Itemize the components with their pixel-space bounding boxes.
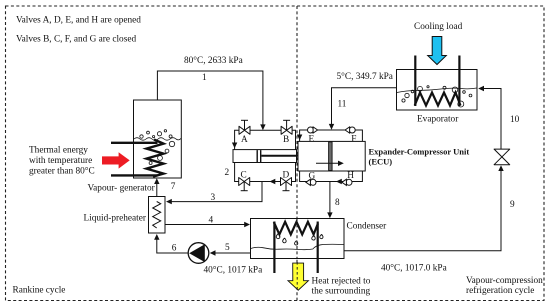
condenser coil bbox=[274, 222, 318, 235]
svg-text:Expander-Compressor Unit: Expander-Compressor Unit bbox=[369, 146, 470, 156]
arrowhead up into expansion valve (line 9) bbox=[498, 165, 503, 171]
svg-text:Rankine cycle: Rankine cycle bbox=[13, 286, 66, 296]
piston motion arrow bbox=[316, 162, 341, 164]
piston rod bbox=[261, 155, 328, 157]
condenser droplets bbox=[276, 234, 323, 246]
svg-text:7: 7 bbox=[171, 182, 176, 192]
left piston (double line) bbox=[256, 150, 258, 162]
arrowhead left on right bottom manifold bbox=[336, 179, 342, 184]
wire line 10 (expansion valve to evaporator) bbox=[482, 89, 501, 150]
svg-text:5°C, 349.7 kPa: 5°C, 349.7 kPa bbox=[337, 71, 393, 82]
svg-text:G: G bbox=[309, 171, 316, 181]
svg-text:40°C, 1017.0 kPa: 40°C, 1017.0 kPa bbox=[381, 263, 447, 274]
ECU left bottom manifold bbox=[235, 163, 296, 182]
red thermal-input arrow bbox=[102, 152, 130, 168]
wire line 8 (ECU to condenser) bbox=[329, 182, 331, 215]
wire line 11 (evaporator to ECU) bbox=[332, 88, 398, 126]
arrowhead down inside left manifold bbox=[232, 143, 237, 149]
svg-text:Cooling load: Cooling load bbox=[414, 22, 463, 32]
pump P bbox=[188, 243, 209, 264]
arrowhead up into preheater (line 6) bbox=[154, 234, 159, 240]
wire line 4 (preheater to condenser) bbox=[165, 224, 245, 226]
svg-text:Valves B, C, F, and G are clos: Valves B, C, F, and G are closed bbox=[16, 35, 136, 45]
svg-text:with temperature: with temperature bbox=[29, 156, 92, 166]
svg-text:B: B bbox=[283, 135, 289, 145]
svg-text:3: 3 bbox=[211, 193, 216, 203]
wire line 7 (preheater to generator) bbox=[156, 180, 158, 197]
expansion valve bbox=[494, 149, 510, 165]
arrowhead into evaporator (line 10) bbox=[478, 86, 484, 91]
right piston (gray bar) bbox=[329, 142, 333, 171]
divider dashes through condenser bbox=[296, 219, 298, 258]
check valve H bbox=[342, 179, 352, 185]
svg-text:1: 1 bbox=[202, 73, 207, 83]
wire line 6 (pump to preheater) bbox=[157, 237, 188, 254]
svg-text:10: 10 bbox=[510, 115, 520, 125]
svg-text:H: H bbox=[347, 171, 354, 181]
cooling load arrow (cyan) bbox=[428, 37, 447, 65]
generator bubbles bbox=[140, 130, 175, 165]
wire line 1 (generator top to ECU inlet) bbox=[157, 71, 263, 127]
svg-text:Vapour- generator: Vapour- generator bbox=[88, 183, 156, 193]
svg-text:Valves A, D, E, and H are open: Valves A, D, E, and H are opened bbox=[16, 16, 141, 26]
generator heating coil bbox=[147, 140, 164, 177]
generator liquid surface (wavy) bbox=[134, 138, 181, 141]
condenser vessel bbox=[251, 219, 345, 259]
yellow heat-rejection arrow bbox=[288, 263, 308, 290]
evaporator vessel bbox=[397, 70, 478, 111]
condenser probe left bbox=[273, 222, 275, 274]
generator heat-input plate (top thick line) bbox=[111, 142, 158, 144]
svg-text:the surrounding: the surrounding bbox=[312, 287, 371, 297]
svg-text:80°C, 2633 kPa: 80°C, 2633 kPa bbox=[184, 55, 243, 66]
svg-text:(ECU): (ECU) bbox=[369, 157, 393, 167]
liquid preheater bbox=[149, 197, 166, 234]
svg-text:D: D bbox=[283, 171, 290, 181]
svg-text:2: 2 bbox=[225, 168, 230, 178]
vapour generator vessel bbox=[134, 100, 182, 178]
arrowhead into condenser (line 8) bbox=[327, 212, 332, 218]
evaporator coil bbox=[415, 93, 461, 106]
divider dashes over yellow arrow bbox=[296, 262, 298, 291]
check valve E bbox=[308, 127, 318, 133]
svg-text:A: A bbox=[241, 135, 248, 145]
generator heat-input plate (bottom thick line) bbox=[111, 174, 158, 176]
svg-text:Evaporator: Evaporator bbox=[417, 115, 459, 125]
svg-text:Liquid-preheater: Liquid-preheater bbox=[84, 214, 147, 224]
svg-text:4: 4 bbox=[209, 215, 214, 225]
valve B bbox=[281, 120, 292, 134]
svg-text:6: 6 bbox=[172, 244, 177, 254]
wire line 9 (condenser to expansion valve) bbox=[344, 170, 501, 251]
evaporator liquid surface bbox=[397, 88, 477, 93]
svg-text:greater than 80°C: greater than 80°C bbox=[29, 165, 95, 176]
check valve F bbox=[345, 127, 355, 133]
evaporator probe right bbox=[458, 56, 460, 107]
svg-text:9: 9 bbox=[510, 200, 515, 210]
svg-text:Thermal energy: Thermal energy bbox=[29, 146, 88, 156]
svg-text:Vapour-compression: Vapour-compression bbox=[466, 276, 543, 286]
svg-text:Condenser: Condenser bbox=[347, 222, 388, 232]
evaporator bubbles bbox=[402, 86, 472, 107]
preheater coil bbox=[153, 202, 161, 229]
condenser probe right bbox=[317, 222, 319, 274]
arrowhead into pump (line 5) bbox=[210, 250, 216, 255]
ECU right top manifold bbox=[300, 130, 363, 141]
arrowhead up into generator (line 7) bbox=[154, 178, 159, 184]
svg-text:5: 5 bbox=[225, 243, 230, 253]
svg-text:Heat rejected to: Heat rejected to bbox=[312, 277, 371, 287]
svg-text:40°C, 1017 kPa: 40°C, 1017 kPa bbox=[204, 265, 263, 276]
valve A bbox=[239, 120, 250, 134]
arrowhead into ECU top manifold (line 1) bbox=[260, 124, 265, 130]
arrowhead down inside right manifold bbox=[297, 135, 302, 141]
evaporator probe left bbox=[414, 56, 416, 107]
arrowhead into condenser (line 4) bbox=[244, 222, 250, 227]
svg-text:11: 11 bbox=[338, 100, 347, 110]
ECU right bottom manifold bbox=[300, 171, 363, 182]
ECU left cylinder bbox=[233, 150, 297, 163]
wire line 3 (ECU to preheater) bbox=[168, 182, 262, 202]
ECU left top manifold bbox=[235, 130, 296, 149]
check valve G bbox=[306, 179, 316, 185]
svg-text:C: C bbox=[241, 171, 247, 181]
ECU right cylinder bbox=[298, 141, 365, 171]
arrowhead into ECU right manifold (line 11) bbox=[329, 124, 334, 130]
svg-text:8: 8 bbox=[335, 198, 340, 208]
wire line 5 (condenser to pump) bbox=[213, 252, 251, 254]
arrowhead into preheater (line 3) bbox=[166, 199, 172, 204]
arrowhead left on bottom manifold bbox=[270, 179, 276, 184]
valve D bbox=[281, 178, 292, 191]
valve C bbox=[239, 178, 250, 191]
svg-text:refrigeration cycle: refrigeration cycle bbox=[466, 285, 534, 296]
dashed divider between Rankine and refrigeration cycles bbox=[296, 6, 298, 301]
condenser liquid surface bbox=[251, 244, 344, 249]
